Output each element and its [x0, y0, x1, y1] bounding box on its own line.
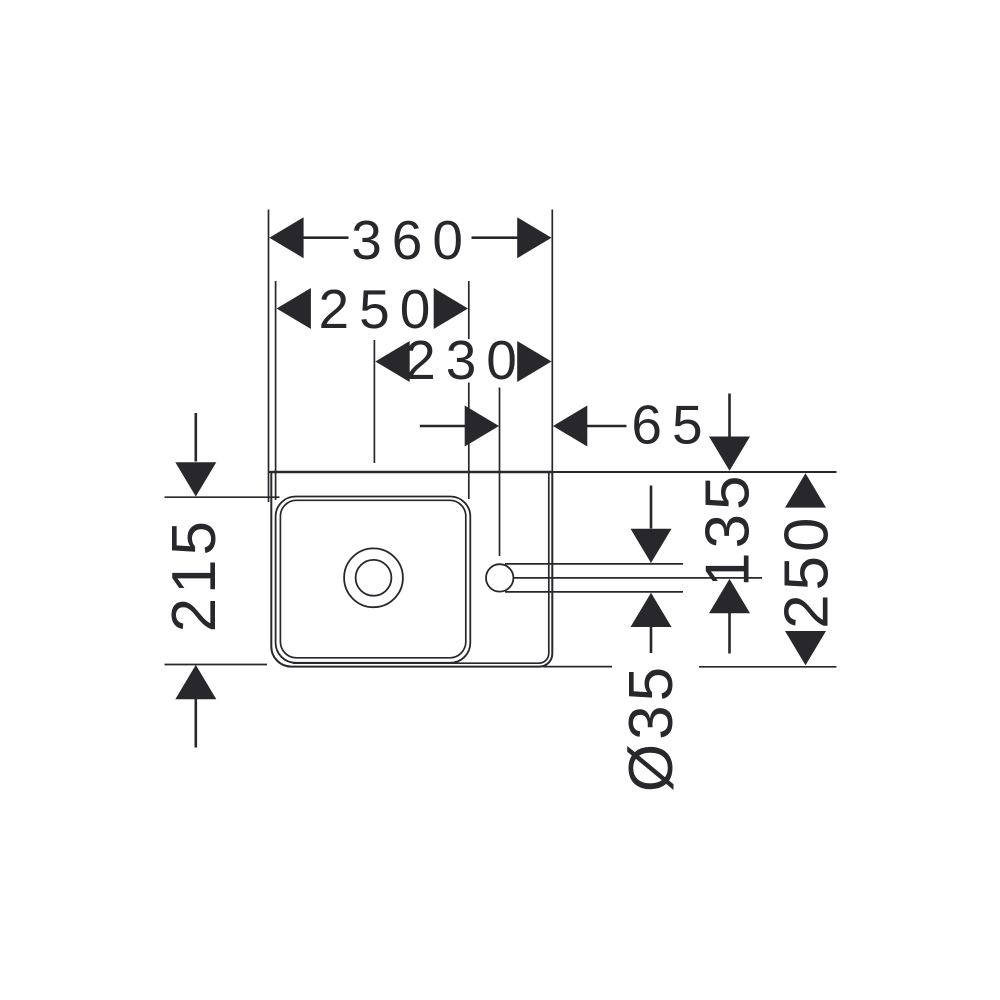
svg-text:360: 360: [351, 209, 473, 271]
svg-text:215: 215: [160, 517, 229, 632]
dim 215 upper tail: [195, 413, 198, 462]
dim 65 arrow pointing left: [553, 406, 587, 447]
dim 135 lower tail: [728, 613, 731, 654]
svg-text:65: 65: [631, 394, 712, 456]
extension line left (360): [268, 210, 270, 503]
dim 65 tail right: [587, 425, 627, 428]
dim 250 right arrow down: [785, 631, 826, 665]
body outline outer: [271, 472, 552, 667]
faucet hole top tangent line: [505, 563, 683, 565]
faucet hole center line: [514, 577, 762, 579]
extension line left (250): [275, 281, 277, 500]
dim 215 arrow down: [175, 462, 216, 496]
dim 360 arrow left: [269, 217, 303, 258]
dim 135 arrow up: [709, 579, 750, 613]
bottom reference line right (250): [699, 666, 837, 668]
215 top reference line: [165, 496, 280, 498]
dim 65 tail left: [420, 425, 467, 428]
215 bottom reference line: [165, 664, 268, 666]
extension line left (230): [373, 340, 375, 463]
dim 250 arrow left: [277, 288, 311, 329]
top edge extension line: [269, 471, 837, 473]
svg-text:250: 250: [773, 513, 842, 628]
body top edge (thicker overdraw): [270, 471, 552, 474]
dim 250 arrow right: [434, 288, 468, 329]
dim 215 lower tail: [195, 699, 198, 748]
dim Ø35 arrow up: [631, 593, 672, 627]
dim Ø35 lower tail: [650, 627, 653, 653]
dim 215 arrow up: [175, 665, 216, 699]
body outline inner (right/bottom double line): [293, 472, 549, 663]
basin rim outer: [276, 497, 471, 663]
extension line right (250): [468, 281, 470, 339]
bottom edge extension line (Ø35): [543, 666, 612, 668]
dim 135 upper tail: [728, 394, 731, 442]
svg-text:Ø35: Ø35: [617, 663, 686, 792]
dim 230 arrow right: [517, 341, 551, 382]
extension line faucet center: [499, 388, 501, 557]
dim 250 right arrow up: [785, 473, 826, 507]
drain inner circle: [356, 560, 392, 596]
drain outer circle: [344, 548, 403, 607]
dim 230 arrow left: [375, 341, 409, 382]
dim 360 line: [304, 236, 349, 239]
faucet hole bottom tangent line: [505, 591, 683, 593]
svg-text:135: 135: [694, 472, 763, 587]
dim 135 arrow down: [709, 437, 750, 471]
extension line right (360/230/65): [551, 210, 553, 473]
basin rim inner: [280, 500, 465, 658]
faucet hole circle: [486, 564, 513, 591]
dim 360 arrow right: [517, 217, 551, 258]
svg-text:230: 230: [405, 329, 527, 391]
dim 65 arrow pointing right: [465, 406, 499, 447]
dim Ø35 arrow down: [631, 529, 672, 563]
dim Ø35 upper tail: [650, 486, 653, 529]
